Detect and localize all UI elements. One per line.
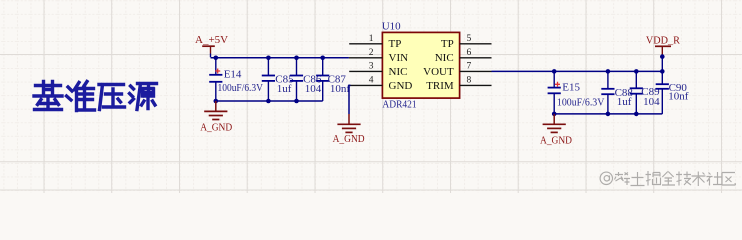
svg-text:NIC: NIC — [389, 66, 408, 78]
wire VOUT bus — [492, 70, 663, 72]
svg-text:VOUT: VOUT — [423, 66, 454, 78]
node junction E15 top — [552, 69, 557, 74]
ground A_GND right — [540, 114, 572, 147]
svg-text:6: 6 — [467, 48, 472, 58]
pin 8 TRIM — [426, 75, 491, 91]
svg-text:8: 8 — [467, 75, 472, 85]
power flag VDD_R — [646, 35, 681, 72]
svg-text:E15: E15 — [562, 81, 580, 93]
pin 6 NIC — [435, 48, 492, 64]
svg-text:2: 2 — [369, 48, 374, 58]
svg-text:104: 104 — [305, 83, 322, 95]
watermark @稀土掘金技术社区 — [600, 171, 735, 186]
node junction C88 top — [606, 69, 611, 74]
capacitor C90 — [656, 71, 689, 114]
svg-text:10nf: 10nf — [330, 83, 351, 95]
svg-text:1uf: 1uf — [277, 83, 292, 95]
node junction C90/VDD_R — [660, 69, 665, 74]
node junction A_+5V/E14 — [214, 56, 219, 61]
power flag A_+5V — [195, 34, 228, 57]
title 基准压源 — [34, 82, 157, 111]
svg-text:A_GND: A_GND — [333, 133, 365, 145]
capacitor C86 — [290, 58, 322, 101]
node junction C86 bottom — [294, 99, 299, 104]
svg-text:1uf: 1uf — [617, 96, 632, 108]
capacitor E15 — [548, 71, 605, 114]
svg-text:TP: TP — [441, 38, 454, 50]
capacitor E14 — [209, 58, 263, 101]
svg-text:A_+5V: A_+5V — [195, 34, 228, 46]
pin 2 VIN — [349, 48, 408, 64]
capacitor C85 — [262, 58, 294, 101]
svg-text:NIC: NIC — [435, 52, 454, 64]
svg-text:100uF/6.3V: 100uF/6.3V — [557, 96, 605, 108]
node junction C89 top — [634, 69, 639, 74]
svg-text:5: 5 — [467, 34, 472, 44]
svg-text:VIN: VIN — [389, 52, 409, 64]
ground A_GND middle — [333, 114, 365, 145]
capacitor C87 — [316, 58, 350, 101]
pin 3 NIC — [349, 61, 407, 77]
wire top-left bus — [211, 57, 349, 59]
svg-text:A_GND: A_GND — [200, 122, 232, 134]
svg-text:104: 104 — [643, 96, 660, 108]
svg-text:A_GND: A_GND — [540, 135, 572, 147]
svg-text:7: 7 — [467, 61, 472, 71]
pin 1 TP — [349, 34, 401, 50]
capacitor C89 — [630, 71, 660, 114]
pin 7 VOUT — [423, 61, 491, 77]
svg-text:ADR421: ADR421 — [382, 98, 416, 110]
node junction C85 bottom — [266, 99, 271, 104]
svg-text:1: 1 — [369, 34, 374, 44]
pin 5 TP — [441, 34, 492, 50]
node junction C86 top — [294, 56, 299, 61]
wire bottom-left bus — [216, 100, 323, 102]
svg-text:GND: GND — [389, 80, 413, 92]
capacitor C88 — [601, 71, 633, 114]
svg-text:3: 3 — [369, 61, 374, 71]
node junction C85 top — [266, 56, 271, 61]
node junction C88 bottom — [606, 112, 611, 117]
wire bottom-right bus — [554, 113, 662, 115]
svg-text:10nf: 10nf — [668, 91, 689, 103]
wire GND pin4 to ground — [349, 85, 351, 114]
svg-text:U10: U10 — [382, 21, 401, 33]
svg-text:100uF/6.3V: 100uF/6.3V — [218, 82, 264, 94]
node junction E15 bottom — [552, 112, 557, 117]
IC U10 ADR421 body — [382, 21, 460, 111]
svg-text:TP: TP — [389, 38, 402, 50]
pin 4 GND — [349, 75, 412, 91]
node junction C87 top — [320, 56, 325, 61]
node junction E14 bottom — [214, 99, 219, 104]
node junction C89 bottom — [634, 112, 639, 117]
svg-text:TRIM: TRIM — [426, 80, 454, 92]
svg-text:4: 4 — [369, 75, 374, 85]
ground A_GND left — [200, 101, 232, 134]
svg-text:VDD_R: VDD_R — [646, 35, 681, 47]
svg-text:E14: E14 — [224, 69, 242, 81]
